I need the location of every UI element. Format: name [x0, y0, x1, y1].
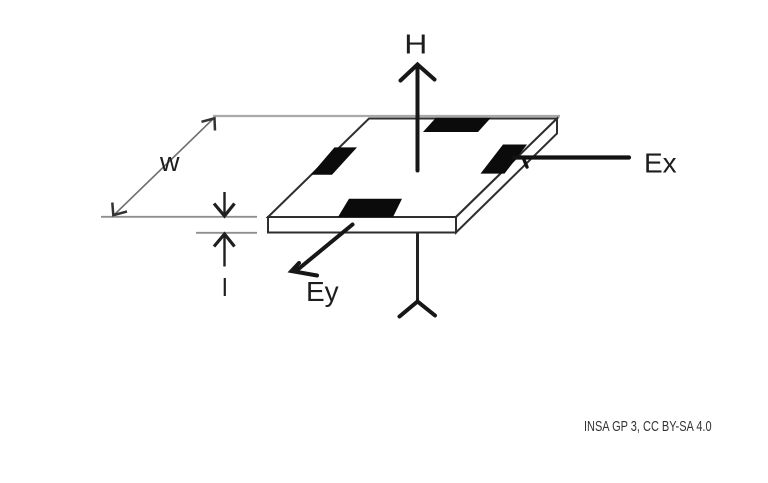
- plate top face: [268, 119, 557, 218]
- dimension arrow w (double-headed): [112, 118, 215, 215]
- extension line lower (gray, along bottom of front face): [196, 232, 257, 234]
- svg-text:Ey: Ey: [306, 276, 339, 307]
- svg-text:INSA GP 3, CC BY-SA 4.0: INSA GP 3, CC BY-SA 4.0: [584, 417, 712, 434]
- lead line bottom chevron: [400, 302, 436, 317]
- dimension arrow l lower (pointing up): [214, 234, 235, 267]
- arrow Ex (horizontal, pointing left at right pad): [514, 158, 629, 168]
- extension line bottom-left (gray, along top of front face): [101, 216, 257, 218]
- svg-text:Ex: Ex: [644, 147, 677, 178]
- contact pad right: [481, 145, 528, 174]
- svg-text:w: w: [159, 147, 180, 177]
- arrow H (vertical, up): [401, 65, 435, 171]
- svg-text:l: l: [222, 274, 228, 302]
- dimension arrow l upper (pointing down): [214, 192, 235, 216]
- contact pad left: [311, 147, 357, 174]
- svg-text:H: H: [404, 29, 427, 60]
- extension line top (gray, along back edge of plate): [213, 115, 560, 117]
- contact pad back: [423, 118, 491, 132]
- plate front face: [268, 217, 456, 233]
- arrow Ey (diagonal, pointing down-left from front pad): [292, 225, 353, 276]
- lead line bottom (vertical wire below plate): [416, 233, 419, 302]
- contact pad front: [338, 199, 402, 217]
- plate right side face: [456, 119, 557, 233]
